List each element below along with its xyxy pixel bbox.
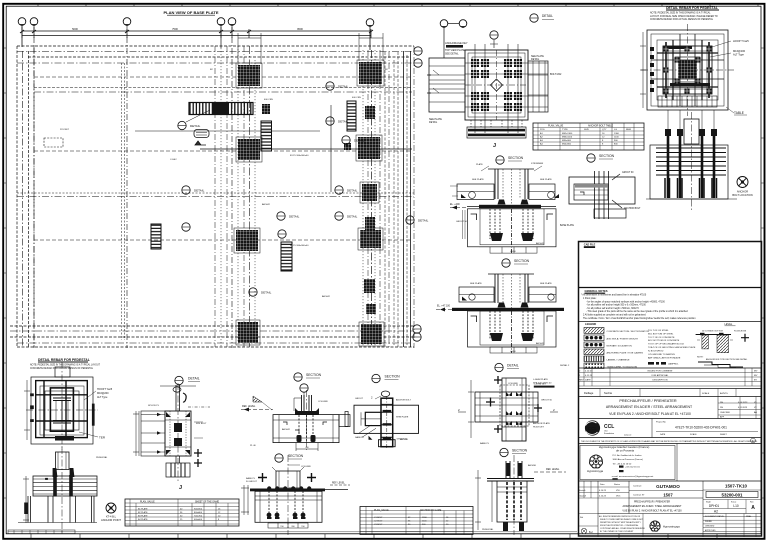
svg-text:4.11.2023: 4.11.2023 <box>738 407 748 409</box>
legend swatch 2 <box>584 335 639 341</box>
grid line E vertical <box>231 26 233 348</box>
svg-text:- for the angles of space matc: - for the angles of space matched surfac… <box>586 300 665 303</box>
grid line B vertical <box>33 26 35 348</box>
section 3-3 bubble <box>502 259 530 267</box>
grid bubble right top 2 <box>414 59 422 67</box>
svg-text:AB M36: AB M36 <box>528 464 537 467</box>
base plate row4 left <box>236 320 260 345</box>
svg-text:CONCRETE SECTION / SECTION BET: CONCRETE SECTION / SECTION BETON <box>607 331 650 333</box>
svg-text:L-SHIM PLATE: L-SHIM PLATE <box>533 378 548 381</box>
section 6 right extension <box>325 483 350 490</box>
section 3-3 bottom tier <box>490 347 537 353</box>
intermediate row <box>578 389 762 397</box>
svg-text:SECTION: SECTION <box>306 373 322 377</box>
section 1-1 left wing <box>450 184 494 200</box>
svg-text:7500: 7500 <box>172 27 178 31</box>
svg-text:BASE PL: BASE PL <box>355 436 365 439</box>
base plate row2 left <box>236 137 262 162</box>
section 4 column <box>294 395 312 411</box>
svg-text:PERMITTED WITHOUT WRITTEN AUTH: PERMITTED WITHOUT WRITTEN AUTHORITY <box>600 521 641 524</box>
svg-text:1 Floor plate:: 1 Floor plate: <box>583 297 597 300</box>
grid line C vertical <box>126 26 128 348</box>
svg-text:Ref: Ref <box>580 517 584 519</box>
svg-text:SEE PLATE: SEE PLATE <box>540 282 552 285</box>
svg-text:EL. +200: EL. +200 <box>450 203 460 206</box>
svg-text:SECTION: SECTION <box>508 156 524 160</box>
svg-text:POS: POS <box>540 129 545 131</box>
pedestal center plate <box>675 57 700 82</box>
anchor plan detail central square <box>429 44 548 133</box>
svg-text:Gepruft: Gepruft <box>579 495 586 498</box>
notes divider <box>578 321 762 323</box>
svg-text:LAMINEL / CHARNELE: LAMINEL / CHARNELE <box>607 359 631 362</box>
svg-text:47E27-TK10-53200-402-DPH01-001: 47E27-TK10-53200-402-DPH01-001 <box>675 425 727 429</box>
section 3-3 column <box>488 274 534 308</box>
svg-text:COPYRIGHT AND ALL OTHER RIGHTS: COPYRIGHT AND ALL OTHER RIGHTS RESERVED <box>600 527 646 530</box>
svg-text:LAMPROL: LAMPROL <box>668 363 679 366</box>
section 1-1 ref level arrow <box>450 203 467 210</box>
section 1-1 column <box>476 163 544 205</box>
svg-text:BY THE OWNER OF THE DOCUMENT: BY THE OWNER OF THE DOCUMENT <box>600 531 634 533</box>
grid bubble 3 <box>123 18 131 26</box>
svg-text:PLAN_VALUE: PLAN_VALUE <box>374 509 389 512</box>
svg-text:SPLICE PL: SPLICE PL <box>148 405 160 407</box>
svg-text:A2/NTS: A2/NTS <box>720 392 728 395</box>
legend lower bracket <box>697 356 748 367</box>
pedestal detail edge rebar marks <box>30 393 95 425</box>
svg-text:C/S GROUND TO FASTEN: C/S GROUND TO FASTEN <box>648 353 675 356</box>
thin info strip <box>578 438 762 444</box>
bottom section dims tiny <box>280 251 516 528</box>
grid bubble 5 <box>228 18 236 26</box>
svg-text:REM: REM <box>626 129 631 131</box>
svg-text:NOTE: PEDESTAL SIZE IN THIS DR: NOTE: PEDESTAL SIZE IN THIS DRAWING IS A… <box>650 12 711 15</box>
left bottom mini column <box>578 513 598 515</box>
section 2-2 gray band <box>575 184 608 188</box>
svg-text:GUTAMOO: GUTAMOO <box>656 484 680 489</box>
section 6 top column <box>272 455 311 535</box>
svg-text:3000 Aix-en-Provence (France): 3000 Aix-en-Provence (France) <box>613 458 644 461</box>
svg-text:- for all profiles self anchor: - for all profiles self anchor height 50… <box>586 304 646 307</box>
section 6 bolt hooks <box>267 513 306 519</box>
svg-text:CAD FILE: CAD FILE <box>584 243 596 246</box>
svg-text:4.11.23: 4.11.23 <box>585 375 593 377</box>
base plate mid right <box>360 182 379 203</box>
svg-text:BASE PL: BASE PL <box>246 477 256 480</box>
svg-text:Kreuz: Kreuz <box>731 501 736 503</box>
svg-text:ISSUE TO THIRD PARTIES IN ANY: ISSUE TO THIRD PARTIES IN ANY FORM IS NO… <box>600 518 644 521</box>
svg-text:AB M42: AB M42 <box>262 203 271 206</box>
svg-text:900x900: 900x900 <box>194 508 203 510</box>
svg-text:50 OUTSIDE / BOTTOM: 50 OUTSIDE / BOTTOM <box>702 331 723 333</box>
svg-text:e-mail: mecanoservices@hyprost: e-mail: mecanoservices@hyprostroyga.net <box>612 475 654 478</box>
svg-text:DETAIL: DETAIL <box>261 291 272 295</box>
detail bubble p10 <box>278 230 286 238</box>
svg-text:HOLE DET: HOLE DET <box>533 426 545 428</box>
section 6 pedestal <box>241 477 322 522</box>
svg-text:DATE: DATE <box>585 379 591 382</box>
svg-text:DATE: DATE <box>660 433 666 436</box>
grid bubble 2 <box>30 18 38 26</box>
svg-text:DETAIL: DETAIL <box>188 377 200 381</box>
right column line band <box>363 50 380 347</box>
legend dark chips <box>648 362 679 366</box>
CCL logo row <box>578 419 762 438</box>
svg-text:4.10.23: 4.10.23 <box>585 371 593 373</box>
svg-text:VUE EN PLAN 2 / ANCHOR BOLT PL: VUE EN PLAN 2 / ANCHOR BOLT PLAN AT EL +… <box>622 510 682 513</box>
anchor plan right wing <box>528 61 548 112</box>
svg-text:NOTE: PEDESTAL SIZE IN THIS DR: NOTE: PEDESTAL SIZE IN THIS DRAWING IS A… <box>30 364 101 367</box>
svg-text:COLUMN: COLUMN <box>508 383 518 385</box>
svg-text:Hyprostroyga: Hyprostroyga <box>663 525 680 529</box>
section 5 bottom block <box>379 440 396 447</box>
svg-text:B1 PL 900x900x40: B1 PL 900x900x40 <box>290 245 309 247</box>
svg-text:C3 BOLT: C3 BOLT <box>374 524 383 526</box>
plus marker lower <box>534 404 542 412</box>
svg-text:SCALE: SCALE <box>690 433 697 436</box>
base plate row4 right <box>359 322 384 346</box>
bottom mid table <box>125 499 239 526</box>
section 1-1 right wing <box>529 184 559 200</box>
section bubble mid-right lower <box>500 448 528 456</box>
section 4 base plate <box>295 411 319 415</box>
svg-text:DOCUMENT STATUS: DOCUMENT STATUS <box>705 515 724 518</box>
detail bubble p7 <box>277 212 300 220</box>
svg-text:HOOP T bar5: HOOP T bar5 <box>97 388 113 391</box>
svg-text:AB M42: AB M42 <box>536 242 545 245</box>
svg-text:GROUT 30: GROUT 30 <box>622 172 634 174</box>
svg-text:AGG W.R.A / POINTE GROUTE: AGG W.R.A / POINTE GROUTE <box>607 338 639 341</box>
svg-text:ISSUED: ISSUED <box>705 521 713 523</box>
plan leader labels <box>60 69 388 298</box>
svg-text:THIS DOCUMENT IS THE PROPERTY: THIS DOCUMENT IS THE PROPERTY OF CCL AND… <box>581 440 758 443</box>
svg-text:SECTION: SECTION <box>514 259 530 263</box>
section 6 plus marks <box>258 473 316 482</box>
section 4 pedestal <box>273 390 339 450</box>
svg-text:AB M36: AB M36 <box>400 438 409 441</box>
svg-text:FINAL: FINAL <box>746 515 751 518</box>
detail bubble mid-right <box>495 363 519 371</box>
grid bubble 1 <box>18 18 26 26</box>
svg-text:ANCHOR BOLT: ANCHOR BOLT <box>396 399 412 402</box>
svg-text:GENERAL NOTES: GENERAL NOTES <box>585 289 608 293</box>
svg-text:GROUT: GROUT <box>355 398 364 400</box>
svg-text:SEE PLATE: SEE PLATE <box>470 282 482 285</box>
svg-text:9500: 9500 <box>297 27 303 31</box>
svg-text:DETAIL: DETAIL <box>347 215 358 219</box>
section 5 dark bands <box>383 410 392 440</box>
svg-text:ANCHORED PLATE / TIGE CADRES: ANCHORED PLATE / TIGE CADRES <box>607 352 644 355</box>
section 3-3 bolt hooks <box>490 333 534 341</box>
section 1-1 base plate <box>479 205 541 208</box>
section 3-3 bolt heads <box>498 303 529 308</box>
svg-text:P.O. Av. Gaddart de la Jardins: P.O. Av. Gaddart de la Jardins <box>613 454 643 457</box>
pedestal heavy rebar lines <box>651 34 724 106</box>
legend LEVEL label <box>725 323 736 326</box>
plan bottom boundary dashed horizontals <box>10 326 414 347</box>
svg-text:DETAIL: DETAIL <box>507 364 519 368</box>
section 2-2 plan detail <box>569 171 635 219</box>
svg-text:A: A <box>751 505 755 511</box>
base connection plan detail <box>468 378 538 441</box>
vertical ladder 1 <box>261 121 272 151</box>
svg-text:SEE PLATE: SEE PLATE <box>540 178 552 181</box>
detail bubble p9 <box>182 223 190 231</box>
column stub dark flanges <box>507 463 522 476</box>
svg-text:M30x900: M30x900 <box>562 140 572 142</box>
svg-text:ARRANGEMENT EN ACIER / STEEL A: ARRANGEMENT EN ACIER / STEEL ARRANGEMENT <box>606 405 693 409</box>
bottom dark strips <box>468 129 525 132</box>
section 5 bubble <box>372 374 400 382</box>
base plate row1 right <box>357 60 384 86</box>
svg-text:M36x1100: M36x1100 <box>562 137 573 139</box>
section 4 weld triangle <box>253 396 272 410</box>
svg-text:400 CRS: 400 CRS <box>352 97 361 99</box>
general notes <box>581 289 696 320</box>
svg-text:APP: APP <box>720 416 725 419</box>
section 3-3 left wing <box>459 287 494 302</box>
svg-text:MV: MV <box>754 375 758 377</box>
section 3-3 right wing <box>529 287 556 302</box>
plan detail bolt clusters <box>506 392 522 425</box>
svg-text:M16@200: M16@200 <box>733 49 746 53</box>
svg-text:PEDESTAL: PEDESTAL <box>96 456 108 459</box>
svg-text:ANCHOR BOLT PROJECTION SEE DET: ANCHOR BOLT PROJECTION SEE DETAIL <box>706 358 748 361</box>
scale bar bottom left <box>8 530 75 534</box>
bolt shafts <box>668 131 714 198</box>
svg-text:SEE DETAIL: SEE DETAIL <box>445 53 459 56</box>
svg-text:B1 PL 900x900x40: B1 PL 900x900x40 <box>290 155 309 157</box>
svg-text:DETAIL: DETAIL <box>289 215 300 219</box>
svg-text:FROM THE PROPRIETOR - CONFIDEN: FROM THE PROPRIETOR - CONFIDENTIAL <box>600 524 638 527</box>
flower logo <box>590 455 603 468</box>
svg-text:ISSUED FOR COMMENT: ISSUED FOR COMMENT <box>647 371 673 373</box>
svg-text:* All dimensions in millimetre: * All dimensions in millimetres and base… <box>581 294 647 297</box>
pedestal detail labels <box>79 388 113 440</box>
svg-text:Foundation: Foundation <box>604 432 614 435</box>
svg-text:www.ccl: www.ccl <box>624 435 632 437</box>
svg-text:DETAIL: DETAIL <box>418 219 429 223</box>
detail bubble top-middle <box>490 31 498 48</box>
svg-text:SIZE: SIZE <box>584 129 589 131</box>
svg-text:TABLE: TABLE <box>734 111 744 115</box>
small dashed box left field <box>44 138 63 147</box>
plan boundary dashed horizontals <box>17 46 414 63</box>
leader texts around anchor plan <box>429 55 562 124</box>
detail bubble p1 <box>178 110 210 130</box>
bottom right table <box>360 507 473 535</box>
svg-text:4x200: 4x200 <box>510 251 516 253</box>
svg-text:SECTION: SECTION <box>385 375 401 379</box>
svg-text:Hyprostroyga Istanbul Gestio: Hyprostroyga Istanbul Gestion (France) <box>599 445 650 449</box>
section 3-3 beam line <box>452 308 564 311</box>
elevation dark flanges and bars <box>24 468 74 514</box>
section 6 bubble <box>275 454 304 462</box>
pedestal left rebar dots <box>650 47 654 92</box>
vertical ladder 4 <box>281 242 292 271</box>
section 2-2 labels <box>560 172 641 227</box>
plan detail anchor dashed box <box>500 385 529 426</box>
section 1-1 anchor bolts <box>490 209 533 253</box>
plan detail side flags <box>458 378 558 428</box>
svg-text:1507: 1507 <box>663 493 673 498</box>
bottom stamp row <box>578 514 762 538</box>
section 1-1 bottom tier <box>479 247 545 253</box>
column stub feet <box>503 522 524 531</box>
grid bubble right top 1 <box>414 47 422 55</box>
drawing title zone <box>578 397 762 419</box>
section 6 bolt heads row <box>267 486 311 489</box>
svg-text:DPH01: DPH01 <box>709 504 720 508</box>
svg-text:DETAIL: DETAIL <box>338 85 349 89</box>
svg-text:EL. +47.100: EL. +47.100 <box>437 305 451 308</box>
svg-text:CONCRETE DESIGN FOR ACTUAL DES: CONCRETE DESIGN FOR ACTUAL DESIGN OF PED… <box>650 18 714 21</box>
detail rebar for pedestal title (bottom left) <box>30 358 101 370</box>
base plate row3 right <box>358 228 383 250</box>
grid bubble 4 <box>217 18 225 26</box>
svg-text:L10: L10 <box>733 504 739 508</box>
svg-text:TOG T.OF OF SECONDARY BLOCK: TOG T.OF OF SECONDARY BLOCK <box>648 343 685 346</box>
svg-text:ANCHORAGE KEY: ANCHORAGE KEY <box>445 41 468 45</box>
ladder blob leader line <box>135 130 320 132</box>
section 2-2 bubble <box>587 154 615 162</box>
svg-text:DESCRIPTION: DESCRIPTION <box>653 380 668 382</box>
svg-text:Contract N°: Contract N° <box>633 494 644 497</box>
svg-text:Contract:: Contract: <box>633 485 642 488</box>
svg-text:REF. LEVEL: REF. LEVEL <box>332 483 345 485</box>
center line <box>691 112 693 212</box>
legend swatch 5 <box>584 356 630 362</box>
svg-text:PRECHAUFFEUR / PREHEATER: PRECHAUFFEUR / PREHEATER <box>634 501 670 504</box>
svg-text:BOC BOTTOM OF CONCRETE: BOC BOTTOM OF CONCRETE <box>648 340 680 342</box>
svg-text:M16@200: M16@200 <box>97 392 109 395</box>
svg-text:GROUT 50: GROUT 50 <box>456 221 468 223</box>
svg-text:NOTE:: NOTE: <box>697 356 704 358</box>
svg-text:CCL: CCL <box>604 424 614 430</box>
legend level diagram <box>696 331 749 353</box>
small block right band 2 <box>365 106 375 119</box>
anchor plan detail left wing <box>427 58 465 112</box>
grid bubble right bottom 1 <box>413 325 421 333</box>
svg-text:+33 4 42 16 01: +33 4 42 16 01 <box>625 467 640 469</box>
svg-text:ARRANGEMENT EN ACIER / STEEL A: ARRANGEMENT EN ACIER / STEEL ARRANGEMENT <box>623 505 683 508</box>
column stub section <box>475 455 566 535</box>
anchor plan bottom extension <box>467 120 526 138</box>
svg-text:Rev: Rev <box>750 501 754 503</box>
svg-text:LEVEL: LEVEL <box>725 323 733 326</box>
anchor bolts elevation (right) <box>646 110 737 212</box>
svg-text:DETAIL: DETAIL <box>194 189 205 193</box>
top-middle detail grid bubbles pair <box>440 20 467 58</box>
svg-text:The certificate / form / list: The certificate / form / list / of ancho… <box>583 317 696 320</box>
splice plus marks right <box>194 449 202 467</box>
vertical ladder 3 <box>151 224 161 249</box>
pedestal labels right <box>710 39 749 57</box>
base plate row1 left <box>236 63 262 88</box>
section 4 bubble <box>294 373 322 381</box>
svg-text:Project No: Project No <box>656 421 667 424</box>
svg-text:PLUS/CROSS: PLUS/CROSS <box>734 331 747 333</box>
section 6 flange plate <box>250 489 325 492</box>
svg-text:TOA T.OF OF GROUTING / ANCHO: TOA T.OF OF GROUTING / ANCHORED PLATE <box>648 346 696 349</box>
section 5 leader labels <box>355 399 411 441</box>
splice dark center plates <box>166 412 190 455</box>
legend swatch 1 <box>584 328 649 334</box>
cad file box <box>578 243 762 287</box>
svg-text:M24x800: M24x800 <box>562 144 572 146</box>
svg-text:Stadt: Stadt <box>706 500 711 503</box>
lower hatched legs <box>665 178 717 198</box>
svg-text:TOL T.OF OF STEEL: TOL T.OF OF STEEL <box>648 330 669 332</box>
section 1-1 bolt hooks <box>490 233 534 241</box>
bolt heads <box>665 129 671 136</box>
section 2-2 corner marks <box>580 174 622 208</box>
svg-text:PLAN_VALUE: PLAN_VALUE <box>548 124 564 127</box>
column splice detail <box>133 383 210 482</box>
svg-text:B1 PLATE: B1 PLATE <box>138 507 148 510</box>
section 4 top bubble small <box>300 384 308 398</box>
svg-text:J: J <box>179 485 182 491</box>
svg-text:SCALE: SCALE <box>702 392 710 395</box>
horizontal ladder <box>189 103 253 115</box>
svg-text:BOL BOTTOM OF STEEL: BOL BOTTOM OF STEEL <box>648 333 674 335</box>
svg-text:PEDESTAL: PEDESTAL <box>482 528 494 531</box>
svg-text:FOR APPROVAL: FOR APPROVAL <box>652 374 670 377</box>
leader line mid plan <box>330 105 332 192</box>
svg-text:- for all profiles self anchor: - for all profiles self anchor height x … <box>586 307 639 310</box>
grid bubble right bottom 2 <box>413 333 421 341</box>
svg-text:DETAIL: DETAIL <box>347 189 358 193</box>
svg-text:CHECKED: CHECKED <box>720 412 731 414</box>
detail bubble p11 <box>249 288 272 296</box>
vertical ladder 2 <box>347 101 356 131</box>
top dimension line <box>20 27 373 38</box>
section 1-1 bolt heads <box>498 200 529 205</box>
svg-text:SHIM PLATE: SHIM PLATE <box>396 416 409 419</box>
section 5 inner bolt box <box>345 412 381 440</box>
section 5 top oval <box>371 391 390 400</box>
center title repeat <box>622 501 682 513</box>
pedestal concentric detail (bottom left) <box>26 362 98 450</box>
svg-text:ANCHOR PLATE: ANCHOR PLATE <box>533 422 550 425</box>
section 4 ref line <box>241 405 273 412</box>
svg-text:C1 BOLT: C1 BOLT <box>374 517 383 519</box>
svg-text:SECTION: SECTION <box>288 454 304 458</box>
section 4 bolt heads <box>295 408 319 442</box>
svg-text:KT-4 B.L: KT-4 B.L <box>106 515 117 519</box>
detail bubble p6 <box>335 186 358 194</box>
small block right band <box>364 279 375 293</box>
small plate near ladder <box>262 104 270 114</box>
svg-text:ALT Type: ALT Type <box>733 52 744 56</box>
section 3-3 pedestal <box>468 311 557 347</box>
svg-text:4.10.2023: 4.10.2023 <box>738 402 748 404</box>
svg-text:Erstellt: Erstellt <box>579 489 586 492</box>
svg-text:4.10.23: 4.10.23 <box>599 496 607 498</box>
svg-text:53200-001: 53200-001 <box>722 493 744 498</box>
elevation outline <box>650 145 728 199</box>
detail bubble p4 <box>342 136 365 144</box>
title block outer frame <box>579 242 762 537</box>
base plate row2 right <box>356 135 382 161</box>
band of horizontals <box>656 148 726 175</box>
detail bubble p8 <box>335 212 358 220</box>
revision table <box>578 368 762 386</box>
svg-text:MORTAR / SOLIDBETON: MORTAR / SOLIDBETON <box>607 345 633 348</box>
svg-text:1100: 1100 <box>614 137 619 139</box>
svg-text:DN: DN <box>720 402 724 404</box>
small flower stamp <box>650 521 660 532</box>
